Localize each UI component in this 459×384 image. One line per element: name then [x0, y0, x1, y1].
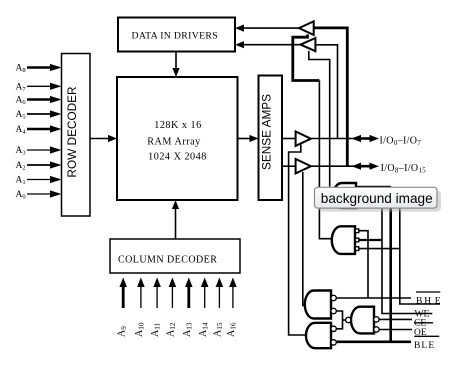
svg-text:BLE: BLE	[414, 341, 435, 351]
svg-text:1024 X 2048: 1024 X 2048	[148, 152, 207, 163]
svg-text:ROW DECODER: ROW DECODER	[65, 86, 79, 177]
svg-text:SENSE AMPS: SENSE AMPS	[259, 94, 273, 170]
svg-text:CE: CE	[414, 319, 426, 329]
svg-text:background image: background image	[321, 191, 433, 206]
svg-text:RAM Array: RAM Array	[147, 136, 201, 147]
svg-text:BHE: BHE	[416, 297, 441, 307]
svg-text:128K x 16: 128K x 16	[154, 120, 202, 131]
svg-text:COLUMN DECODER: COLUMN DECODER	[118, 255, 217, 266]
svg-text:OE: OE	[414, 328, 427, 338]
svg-text:I/O0–I/O7: I/O0–I/O7	[380, 135, 422, 147]
svg-text:DATA IN DRIVERS: DATA IN DRIVERS	[132, 31, 218, 42]
